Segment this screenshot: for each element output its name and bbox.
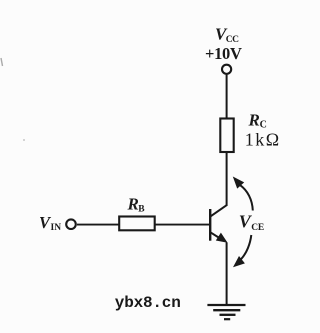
wire RC bottom to collector bbox=[226, 152, 228, 206]
ground bbox=[207, 305, 245, 319]
transistor Q1 collector lead bbox=[210, 205, 227, 217]
scan speck, left edge bbox=[1, 58, 3, 66]
terminal VIN (open circle) bbox=[66, 219, 76, 229]
transistor Q1 emitter lead with arrow bbox=[210, 232, 227, 243]
terminal VCC (open circle) bbox=[222, 65, 231, 74]
resistor RC bbox=[220, 119, 233, 153]
svg-text:ybx8.cn: ybx8.cn bbox=[115, 294, 181, 312]
VCE measurement arrow, upper arc with arrowhead bbox=[233, 177, 253, 211]
svg-text:IN: IN bbox=[51, 223, 62, 233]
wire emitter to ground bbox=[226, 243, 228, 306]
VCE measurement arrow, lower arc with arrowhead bbox=[233, 235, 251, 267]
svg-text:R: R bbox=[127, 195, 139, 214]
label RC bbox=[248, 110, 267, 130]
node VCC label bbox=[215, 25, 239, 45]
node VIN label bbox=[39, 213, 61, 233]
transistor Q1 base bar bbox=[209, 209, 211, 241]
svg-text:R: R bbox=[248, 110, 260, 129]
node VCE label bbox=[239, 212, 264, 233]
svg-text:1kΩ: 1kΩ bbox=[245, 129, 281, 149]
svg-text:B: B bbox=[138, 204, 145, 214]
wire base RB to transistor bbox=[77, 224, 210, 226]
svg-text:CE: CE bbox=[251, 223, 264, 233]
wire VCC terminal to RC top bbox=[226, 75, 228, 119]
svg-text:+10V: +10V bbox=[205, 44, 242, 63]
label RB bbox=[127, 195, 146, 215]
resistor RB bbox=[119, 217, 155, 231]
